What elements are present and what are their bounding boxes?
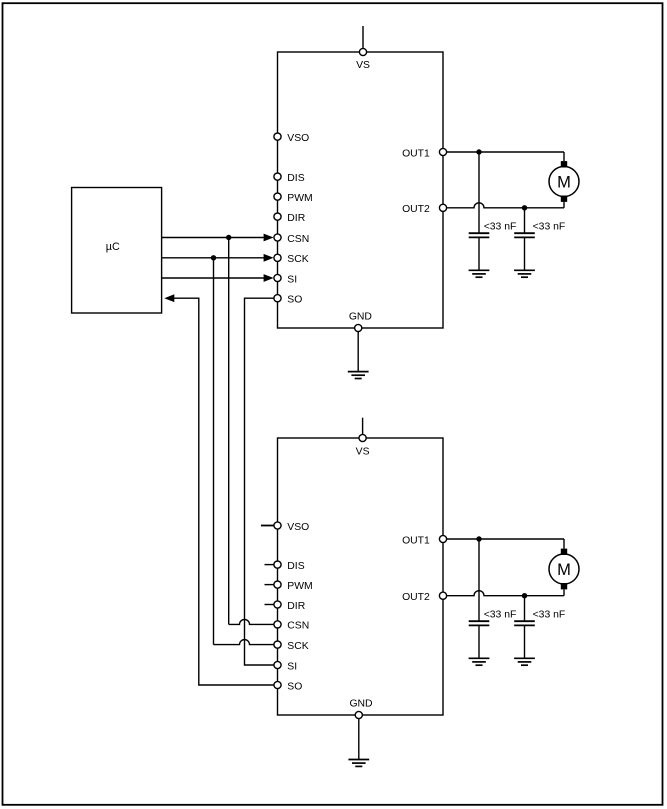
wire OUT1 U2 to motor <box>447 539 564 549</box>
svg-text:GND: GND <box>349 312 372 323</box>
wire stub DIS U2 <box>265 564 275 566</box>
pin SI U1 <box>274 274 297 285</box>
pin SCK U1 <box>274 254 309 265</box>
ground symbol under GND U1 <box>348 372 369 379</box>
ground symbol under C (OUT2 U2) <box>514 658 535 665</box>
capacitor C &lt;33 nF (OUT2 U2) <box>514 621 535 625</box>
IC U1 motor driver box <box>278 52 444 328</box>
svg-text:SO: SO <box>287 295 302 306</box>
wire CSN bus down to U2 (hop over SO chain) <box>229 238 275 625</box>
pin VS U2 <box>356 434 370 457</box>
svg-text:PWM: PWM <box>287 193 312 204</box>
svg-text:CSN: CSN <box>287 621 309 632</box>
wire stub DIR U2 <box>265 604 275 606</box>
svg-text:PWM: PWM <box>287 581 312 592</box>
svg-text:OUT1: OUT1 <box>402 148 430 159</box>
svg-text:<33 nF: <33 nF <box>484 609 517 620</box>
motor M (U1 load) <box>549 161 579 202</box>
svg-text:VSO: VSO <box>287 133 309 144</box>
pin CSN U1 <box>274 234 309 245</box>
wire stub PWM U2 <box>265 584 275 586</box>
ground symbol under GND U2 <box>348 760 369 767</box>
svg-text:DIR: DIR <box>287 601 305 612</box>
pin VSO U1 <box>274 133 309 144</box>
wire CSN net: µC to U1 with branch <box>162 234 274 242</box>
svg-text:VS: VS <box>356 447 370 458</box>
IC U2 motor driver box <box>278 438 444 715</box>
wire SO return: U2 SO to µC (arrow into µC) <box>164 294 274 685</box>
ground symbol under C (OUT1 U1) <box>469 270 490 277</box>
pin VS U1 <box>356 48 370 71</box>
wire capacitor to ground <box>524 237 526 270</box>
junction OUT1/U2 capacitor tap <box>476 536 481 541</box>
ground symbol under C (OUT1 U2) <box>469 658 490 665</box>
pin SCK U2 <box>274 641 309 652</box>
pin PWM U1 <box>274 193 313 204</box>
svg-text:VS: VS <box>356 60 370 71</box>
svg-text:SI: SI <box>287 661 297 672</box>
label C value &lt;33 nF <box>533 609 566 620</box>
svg-text:<33 nF: <33 nF <box>533 221 566 232</box>
svg-text:SCK: SCK <box>287 641 308 652</box>
wire stub VSO U2 <box>261 525 275 527</box>
wire OUT2 tap down to capacitor <box>524 596 526 622</box>
svg-text:SI: SI <box>287 274 297 285</box>
wire OUT1 tap down to capacitor <box>478 152 480 233</box>
junction OUT2/U1 capacitor tap <box>522 205 527 210</box>
pin DIS U1 <box>274 173 305 184</box>
pin OUT1 U2 <box>402 535 447 546</box>
pin OUT2 U2 <box>402 592 447 603</box>
junction CSN branch <box>226 235 231 240</box>
wire OUT1 U1 to motor <box>447 152 564 161</box>
svg-text:M: M <box>557 561 571 579</box>
wire VS stub U1 <box>362 26 364 48</box>
wire SCK net: µC to U1 with branch <box>162 254 274 262</box>
wire capacitor to ground <box>524 625 526 658</box>
pin SO U1 <box>274 295 302 306</box>
pin CSN U2 <box>274 621 309 632</box>
pin DIR U1 <box>274 213 306 224</box>
svg-text:SO: SO <box>287 681 302 692</box>
motor M (U2 load) <box>549 549 579 590</box>
svg-text:SCK: SCK <box>287 254 308 265</box>
label µC <box>106 241 120 253</box>
wire OUT2 U1 to motor (hop over C tap) <box>447 202 564 208</box>
junction SCK branch <box>211 255 216 260</box>
pin DIS U2 <box>274 561 305 572</box>
pin DIR U2 <box>274 601 306 612</box>
pin SI U2 <box>274 661 297 672</box>
svg-text:VSO: VSO <box>287 522 309 533</box>
wire VS stub U2 <box>362 418 364 435</box>
svg-text:CSN: CSN <box>287 234 309 245</box>
svg-text:GND: GND <box>349 699 372 710</box>
wire SO chain: U1 SO to U2 SI <box>245 298 275 665</box>
microcontroller U3 box <box>72 188 162 314</box>
svg-text:<33 nF: <33 nF <box>533 609 566 620</box>
label C value &lt;33 nF <box>533 221 566 232</box>
capacitor C &lt;33 nF (OUT1 U1) <box>469 233 490 237</box>
ground symbol under C (OUT2 U1) <box>514 270 535 277</box>
pin OUT2 U1 <box>402 204 447 215</box>
wire GND U2 to ground <box>358 719 360 760</box>
junction OUT1/U1 capacitor tap <box>476 149 481 154</box>
wire OUT2 tap down to capacitor <box>524 208 526 233</box>
pin SO U2 <box>274 681 302 692</box>
svg-text:OUT2: OUT2 <box>402 204 430 215</box>
svg-text:DIR: DIR <box>287 213 305 224</box>
svg-text:OUT2: OUT2 <box>402 592 430 603</box>
wire GND U1 to ground <box>357 332 359 372</box>
wire capacitor to ground <box>478 237 480 270</box>
capacitor C &lt;33 nF (OUT2 U1) <box>514 233 535 237</box>
pin OUT1 U1 <box>402 148 447 159</box>
pin GND U1 <box>349 312 372 332</box>
svg-text:OUT1: OUT1 <box>402 535 430 546</box>
pin GND U2 <box>349 699 372 719</box>
svg-text:DIS: DIS <box>287 561 304 572</box>
label C value &lt;33 nF <box>484 221 517 232</box>
wire OUT1 tap down to capacitor <box>478 539 480 621</box>
svg-text:M: M <box>557 173 571 191</box>
pin PWM U2 <box>274 581 313 592</box>
svg-text:DIS: DIS <box>287 173 304 184</box>
svg-text:<33 nF: <33 nF <box>484 221 517 232</box>
wire SCK bus down to U2 (hop over SO chain) <box>214 258 275 645</box>
junction OUT2/U2 capacitor tap <box>522 593 527 598</box>
label C value &lt;33 nF <box>484 609 517 620</box>
capacitor C &lt;33 nF (OUT1 U2) <box>469 621 490 625</box>
svg-text:µC: µC <box>106 241 120 253</box>
pin VSO U2 <box>274 522 309 533</box>
wire capacitor to ground <box>478 625 480 658</box>
wire OUT2 U2 to motor (hop over C tap) <box>447 589 564 595</box>
wire SI net: µC to U1 <box>162 274 274 282</box>
